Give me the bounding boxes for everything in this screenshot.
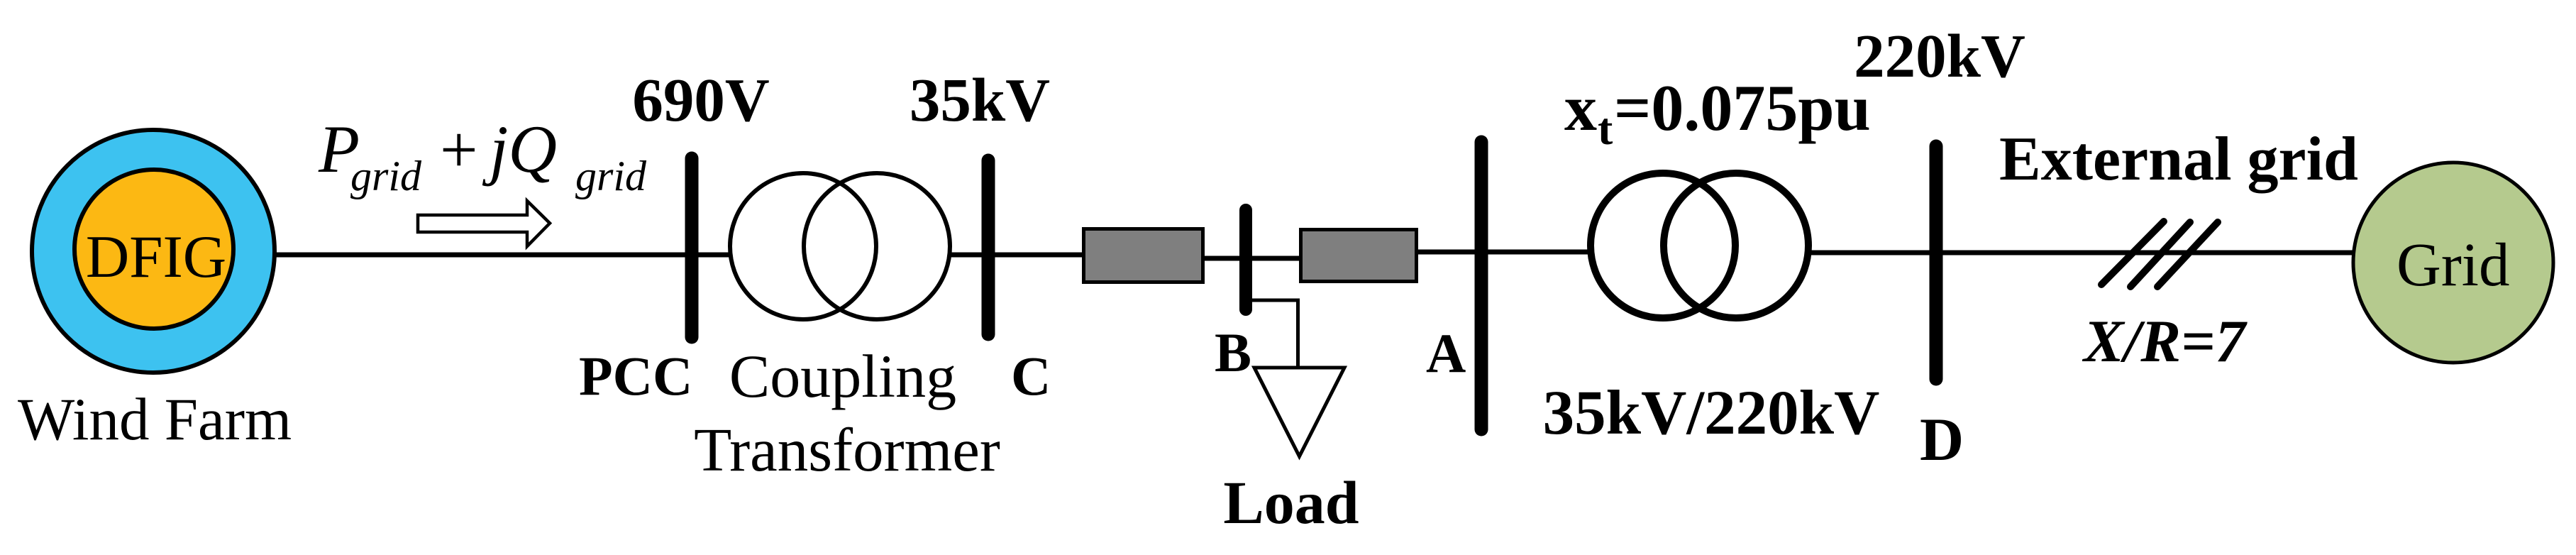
arrow power flow direction <box>418 201 550 246</box>
generator G1 wind farm outer circle <box>32 130 275 373</box>
svg-text:C: C <box>1011 345 1051 407</box>
generator G1 wind farm inner circle DFIG <box>74 170 233 329</box>
transformer T1 coupling primary winding <box>730 173 876 319</box>
busbar B <box>1239 210 1252 309</box>
svg-text:=0.075pu: =0.075pu <box>1614 72 1871 144</box>
line impedance slash 2 <box>2130 222 2190 287</box>
svg-text:Coupling: Coupling <box>729 342 956 410</box>
node Grid external grid circle <box>2353 163 2553 363</box>
transformer T2 main primary winding <box>1591 173 1735 318</box>
wire from breaker 1 to breaker 2 through node B <box>1203 256 1301 261</box>
svg-text:X/R=7: X/R=7 <box>2082 308 2248 375</box>
breaker 1 grey box <box>1084 229 1203 282</box>
svg-text:35kV: 35kV <box>910 65 1050 134</box>
svg-text:DFIG: DFIG <box>86 224 226 290</box>
transformer T2 main secondary winding <box>1664 173 1808 318</box>
wire load tap vertical <box>1296 299 1300 369</box>
line impedance slash 1 <box>2101 221 2164 285</box>
svg-text:Wind Farm: Wind Farm <box>18 386 292 453</box>
busbar C <box>982 160 995 334</box>
svg-text:t: t <box>1598 104 1613 154</box>
svg-text:Transformer: Transformer <box>694 415 1000 484</box>
svg-text:690V: 690V <box>632 65 769 134</box>
svg-text:B: B <box>1215 322 1251 383</box>
breaker 2 grey box <box>1301 230 1417 282</box>
svg-text:35kV/220kV: 35kV/220kV <box>1543 378 1880 448</box>
svg-text:x: x <box>1564 72 1597 144</box>
svg-text:Load: Load <box>1223 468 1359 537</box>
svg-text:grid: grid <box>350 153 422 199</box>
svg-text:External grid: External grid <box>1999 125 2358 194</box>
load arrow triangle <box>1254 368 1344 456</box>
svg-text:grid: grid <box>575 153 647 199</box>
line impedance slash 3 <box>2157 222 2218 287</box>
transformer T1 coupling winding fills <box>730 173 876 319</box>
svg-text:D: D <box>1920 405 1964 473</box>
transformer T1 coupling secondary winding <box>804 173 950 319</box>
svg-text:PCC: PCC <box>579 345 692 407</box>
wire from breaker 2 to main transformer through bus A <box>1416 250 1596 255</box>
svg-text:A: A <box>1426 322 1466 384</box>
wire from DFIG to coupling transformer <box>275 253 738 258</box>
busbar D <box>1930 146 1943 379</box>
svg-text:jQ: jQ <box>482 111 557 187</box>
svg-text:220kV: 220kV <box>1854 21 2025 90</box>
svg-text:+: + <box>440 112 478 187</box>
wire from main transformer to Grid through bus D <box>1806 251 2362 255</box>
wire load tap horizontal <box>1249 299 1300 302</box>
busbar PCC <box>685 158 699 337</box>
svg-text:Grid: Grid <box>2397 230 2509 299</box>
transformer T2 main winding fills <box>1591 173 1735 318</box>
wire from coupling transformer to breaker through bus C <box>944 253 1084 258</box>
busbar A <box>1475 142 1488 429</box>
